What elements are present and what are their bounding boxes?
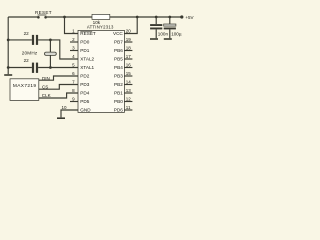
svg-text:100µ: 100µ	[171, 31, 182, 36]
svg-text:PD3: PD3	[80, 82, 89, 87]
resistor R1 10k	[92, 14, 110, 19]
svg-text:PD0: PD0	[80, 40, 89, 45]
svg-text:PD6: PD6	[114, 108, 123, 113]
node: +5V terminal	[180, 15, 183, 18]
ground at IC1 pin 10	[57, 117, 65, 119]
wire: pin 9 stub	[70, 101, 78, 103]
ground at left rail	[4, 74, 12, 76]
wire: C4 100u top stem	[169, 17, 171, 24]
IC1 right pin numbers	[126, 28, 132, 110]
svg-text:XTAL1: XTAL1	[80, 65, 94, 70]
wire: C3 100n top stem	[155, 17, 157, 24]
svg-text:PB0: PB0	[114, 99, 123, 104]
capacitor C2 22p left plate	[32, 63, 34, 73]
svg-text:19: 19	[126, 37, 132, 42]
svg-text:ATTINY2313: ATTINY2313	[87, 25, 114, 30]
svg-text:PB1: PB1	[114, 91, 123, 96]
svg-text:18: 18	[126, 45, 132, 50]
svg-text:PB2: PB2	[114, 82, 123, 87]
svg-text:PD4: PD4	[80, 91, 89, 96]
svg-text:22: 22	[24, 31, 30, 36]
wire: pin 14 stub	[124, 84, 132, 86]
svg-text:+5V: +5V	[185, 15, 193, 20]
node: junction C3	[155, 16, 158, 19]
svg-text:11: 11	[126, 105, 131, 110]
svg-text:12: 12	[126, 96, 132, 101]
svg-text:VCC: VCC	[113, 31, 123, 36]
IC1 ATTINY2313 body	[78, 30, 124, 112]
wire: XTAL2 net from rail to C1	[8, 39, 32, 41]
wire: pin 15 stub	[124, 75, 132, 77]
ground below C4	[164, 38, 172, 40]
wire: CLK to pin 8	[39, 93, 78, 98]
capacitor C3 100n top plate	[150, 24, 162, 26]
wire: CS to pin 7	[39, 85, 78, 90]
svg-text:22: 22	[24, 58, 30, 63]
wire: RESET net drop to pin 1	[65, 17, 79, 34]
svg-text:PD2: PD2	[80, 74, 89, 79]
wire: pin 17 stub	[124, 58, 132, 60]
svg-text:CLK: CLK	[42, 93, 51, 98]
crystal X1 body	[45, 52, 57, 55]
svg-text:RESET: RESET	[35, 10, 52, 15]
capacitor C1 22p left plate	[32, 35, 34, 45]
IC1 left pin labels	[80, 31, 96, 113]
svg-text:14: 14	[126, 79, 132, 84]
wire: C4 100u bottom stem	[169, 29, 171, 38]
wire: pin 13 stub	[124, 92, 132, 94]
wire: C3 100n bottom stem	[155, 29, 157, 38]
svg-text:XTAL2: XTAL2	[80, 57, 94, 62]
node: junction RESET drop	[63, 16, 66, 19]
svg-text:CS: CS	[42, 85, 48, 90]
wire: XTAL1 net from C2 to pin 5	[38, 67, 78, 69]
svg-text:PB4: PB4	[114, 65, 123, 70]
wire: pin 3 stub	[70, 50, 78, 52]
IC1 pin 1 RESET overline	[80, 30, 92, 32]
node: rail junction XTAL1 net	[7, 66, 10, 69]
svg-text:16: 16	[126, 62, 132, 67]
wire: crystal bottom lead	[49, 55, 51, 67]
ground below C3	[150, 38, 158, 40]
wire: VCC pin 20 to top rail	[124, 17, 137, 34]
wire: pin 12 stub	[124, 101, 132, 103]
svg-text:10: 10	[61, 105, 67, 110]
svg-text:100n: 100n	[158, 31, 169, 36]
svg-text:PD5: PD5	[80, 99, 89, 104]
pushbutton S1 contact right	[44, 16, 47, 19]
node: junction VCC	[136, 16, 139, 19]
wire: top rail segment left to pushbutton	[8, 16, 38, 18]
capacitor C4 100u bottom plate	[164, 28, 176, 30]
wire: pin 18 stub	[124, 50, 132, 52]
svg-text:DIN: DIN	[42, 76, 50, 81]
svg-text:GND: GND	[80, 108, 91, 113]
capacitor C3 100n bottom plate	[150, 28, 162, 30]
capacitor C4 100u top plate (polarized, hollow)	[164, 24, 176, 26]
svg-text:MAX7219: MAX7219	[13, 83, 37, 89]
wire: crystal top lead	[49, 40, 51, 52]
wire: XTAL2 net from C1 to pin 4	[38, 40, 78, 59]
svg-text:RESET: RESET	[80, 31, 96, 36]
wire: pin 19 stub	[124, 41, 132, 43]
wire: XTAL1 net from rail to C2	[8, 67, 32, 69]
IC2 MAX7219 body	[10, 79, 39, 101]
svg-text:PB7: PB7	[114, 40, 123, 45]
pushbutton S1 RESET actuator bar	[38, 14, 47, 16]
wire: DIN to pin 6	[39, 76, 78, 80]
wire: left ground rail vertical	[7, 17, 9, 74]
svg-text:13: 13	[126, 88, 132, 93]
node: junction C4	[168, 16, 171, 19]
pushbutton S1 contact left	[37, 16, 40, 19]
node: crystal bottom junction	[49, 66, 52, 69]
svg-text:20MHz: 20MHz	[22, 50, 38, 55]
svg-text:15: 15	[126, 71, 132, 76]
IC1 left pin numbers	[61, 29, 75, 111]
svg-text:PB5: PB5	[114, 57, 123, 62]
IC1 right pin labels	[113, 31, 123, 113]
wire: pin 16 stub	[124, 67, 132, 69]
wire: pin 11 stub	[124, 109, 132, 111]
svg-text:PD1: PD1	[80, 48, 89, 53]
wire: top rail segment pushbutton to resistor	[46, 16, 92, 18]
wire: GND pin 10 to ground	[61, 110, 78, 117]
svg-text:PB3: PB3	[114, 74, 123, 79]
svg-text:20: 20	[126, 28, 132, 33]
capacitor C2 22p right plate	[36, 63, 38, 73]
svg-text:PB6: PB6	[114, 48, 123, 53]
wire: top rail segment resistor to +5V	[110, 16, 182, 18]
wire: pin 2 stub	[70, 41, 78, 43]
node: rail junction XTAL2 net	[7, 39, 10, 42]
node: crystal top junction	[49, 39, 52, 42]
svg-text:17: 17	[126, 54, 132, 59]
capacitor C1 22p right plate	[36, 35, 38, 45]
